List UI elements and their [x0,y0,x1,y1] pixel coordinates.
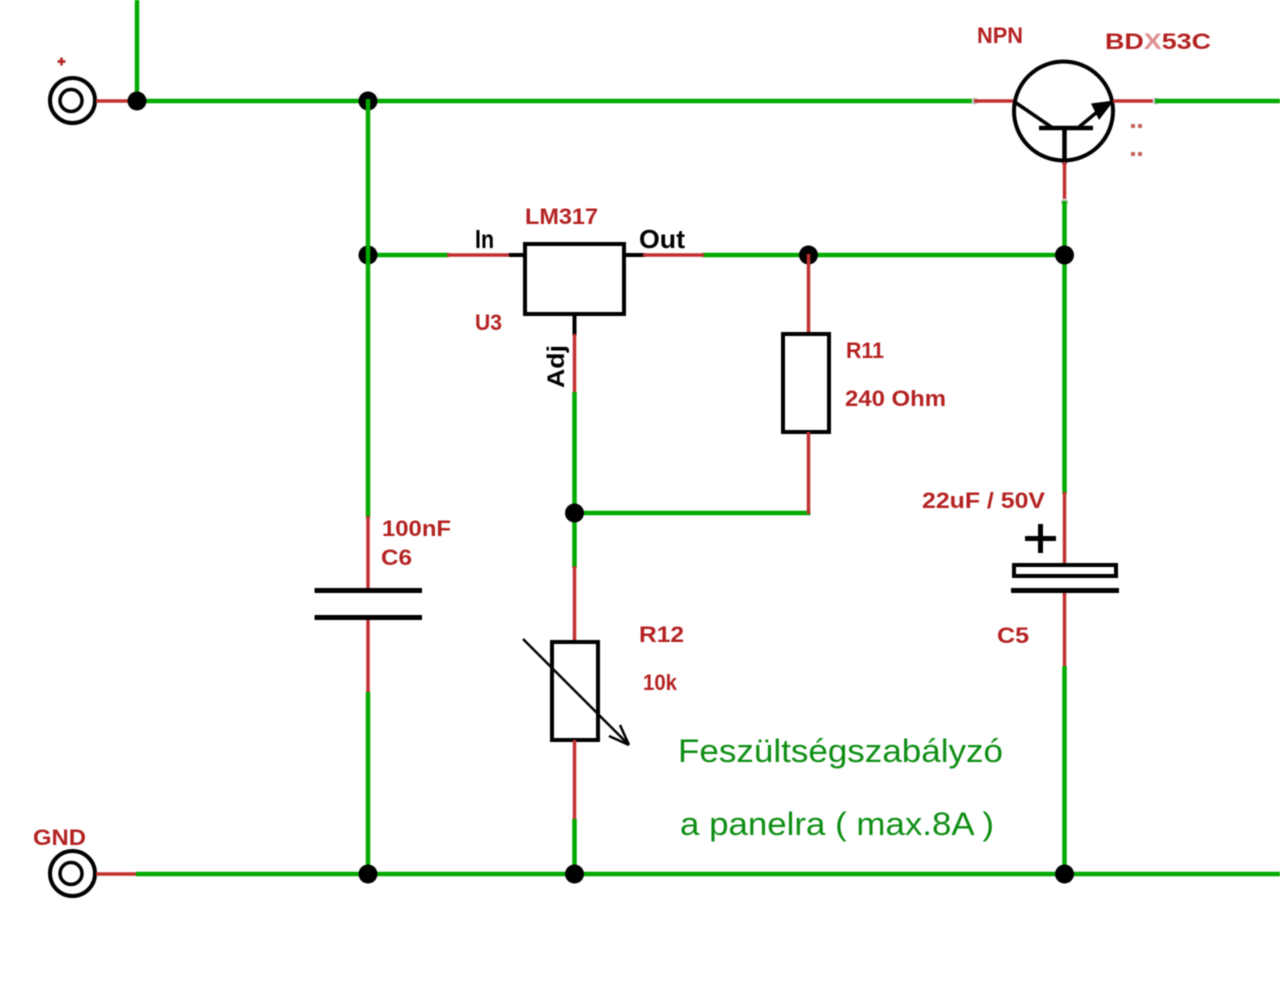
label R12 [639,622,684,647]
wire C6 bottom (red) [366,620,370,694]
label 100nF [382,516,451,541]
wire to Q1 base (red) [974,99,1013,103]
pin stub U3 In [509,253,525,257]
wire adj node to R11 bottom (green) [575,511,811,516]
potentiometer R12 body [552,642,598,740]
annotation line 2 [680,806,994,842]
wire V+ vertical feed [135,0,140,101]
node F junction (adj) [565,504,584,523]
resistor R11 body [783,334,829,432]
node I junction (C5 gnd) [1055,865,1074,884]
wire top bus (green) [135,99,977,104]
label 22uF / 50V [922,488,1045,513]
pin endpoint base-left [972,98,979,105]
node A junction [128,92,147,111]
label BDX53C [1105,29,1211,54]
wire C5 top (red) [1063,492,1067,565]
capacitor C5 top plate [1014,565,1116,576]
svg-text:C6: C6 [381,545,412,570]
node E junction (emitter/out bus) [1055,246,1074,265]
wire C6 branch upper (green) [366,99,371,518]
wire C6 to gnd bus (green) [366,692,371,876]
svg-text:In: In [475,224,494,254]
red tick marks right of Q1 [1131,124,1142,156]
connector J1 (+) [50,78,95,123]
wire top bus right (green) [1155,99,1280,104]
wire out bus left segment (green) [366,253,449,258]
wire Adj down (red) [573,334,577,394]
pin label Adj (rotated) [543,345,570,388]
label R11 [846,338,884,363]
svg-text:Adj: Adj [543,345,570,388]
wire Q1 collector down (red) [1063,162,1067,203]
wire Q1 emitter-right (red) [1113,99,1157,103]
svg-text:C5: C5 [997,623,1029,648]
wire R11 top (red) [807,254,811,334]
potentiometer R12 arrow [523,639,629,745]
wire pot top (red) [573,566,577,642]
wire pot bottom (red) [573,740,577,821]
capacitor C6 bottom plate [315,615,423,620]
wire pot to gnd bus (green) [572,819,577,876]
svg-text:10k: 10k [643,670,678,695]
label C6 [381,545,412,570]
svg-text:NPN: NPN [977,23,1023,48]
transistor Q1 BDX53C [1014,62,1114,165]
wire C6 top (red) [366,516,370,590]
svg-text:GND: GND [33,825,86,850]
pin endpoint emitter-right [1153,98,1160,105]
node C junction (out bus left) [359,246,378,265]
connector GND [50,851,95,896]
op-amp U3 LM317 body [525,244,624,314]
capacitor C5 bottom plate [1011,588,1119,593]
wire collector to out bus and C5 (green) [1062,201,1067,494]
wire GND to bus (red) [96,872,138,876]
pin stub U3 Out [624,253,645,257]
node H junction (R12 gnd) [565,865,584,884]
label LM317 [525,204,598,229]
svg-text:240 Ohm: 240 Ohm [845,386,946,411]
svg-text:LM317: LM317 [525,204,598,229]
svg-text:R12: R12 [639,622,684,647]
svg-text:R11: R11 [846,338,884,363]
wire to U3 In (red over green) [447,253,510,257]
node B junction (top of C6 branch) [359,92,378,111]
capacitor C6 top plate [315,588,423,593]
wire out bus right segment (green) [702,253,1067,258]
pin endpoint collector [1061,199,1068,206]
annotation line 1 [678,733,1003,769]
wire C5 bottom (red) [1063,593,1067,668]
label 240 Ohm [845,386,946,411]
label C5 [997,623,1029,648]
svg-text:BDX53C: BDX53C [1105,29,1211,54]
wire Adj down (green) [572,392,577,568]
capacitor C5 plus sign [1025,524,1056,553]
label U3 [475,310,502,335]
label 10k [643,670,678,695]
wire ground bus (green) [136,872,1280,877]
svg-text:U3: U3 [475,310,502,335]
pin stub U3 Adj [573,314,577,336]
pin label Out [639,224,685,254]
label GND [33,825,86,850]
wire U3 Out (red) [643,253,704,257]
wire C5 to gnd bus (green) [1062,666,1067,876]
label NPN [977,23,1023,48]
pin label In [475,224,494,254]
svg-text:Out: Out [639,224,685,254]
node D junction (R11 top) [799,246,818,265]
node G junction (C6 gnd) [359,865,378,884]
label + (J1 polarity) [58,58,66,66]
svg-text:Feszültségszabályzó: Feszültségszabályzó [678,733,1003,769]
wire J1 to node A (red) [96,99,136,103]
svg-text:a panelra ( max.8A ): a panelra ( max.8A ) [680,806,994,842]
wire R11 bottom (red) [807,432,811,514]
svg-text:22uF / 50V: 22uF / 50V [922,488,1045,513]
svg-text:100nF: 100nF [382,516,451,541]
